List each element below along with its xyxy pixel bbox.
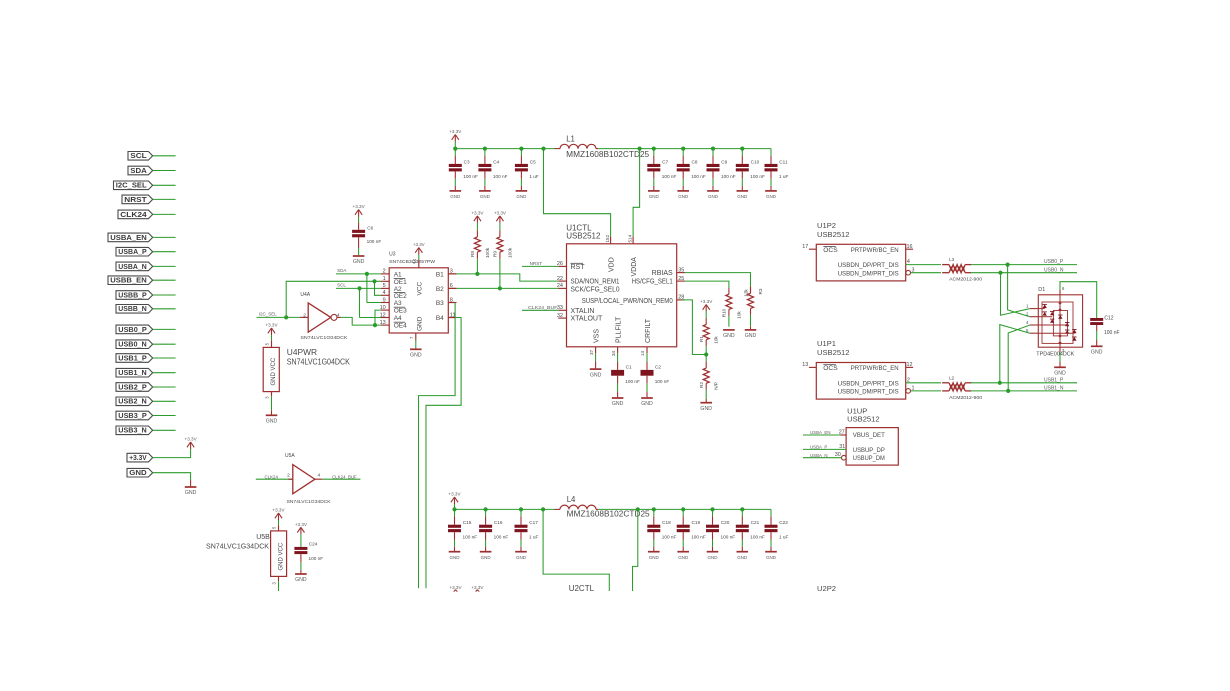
svg-text:USB3_N: USB3_N (118, 426, 146, 435)
svg-text:100 nF: 100 nF (691, 535, 706, 540)
svg-text:4: 4 (318, 473, 321, 479)
svg-text:PRTPWR/BC_EN: PRTPWR/BC_EN (851, 365, 899, 372)
svg-text:C12: C12 (1104, 316, 1113, 322)
svg-text:SCL: SCL (337, 283, 346, 288)
svg-text:2: 2 (383, 269, 386, 275)
svg-text:CLK24: CLK24 (120, 210, 147, 219)
svg-text:1 uF: 1 uF (529, 174, 539, 179)
svg-text:C24: C24 (309, 542, 318, 547)
svg-text:C3: C3 (464, 159, 470, 164)
svg-text:SCK/CFG_SEL0: SCK/CFG_SEL0 (571, 287, 620, 294)
svg-text:GND: GND (1091, 350, 1103, 356)
svg-text:GND: GND (708, 555, 719, 560)
svg-text:GND: GND (516, 555, 527, 560)
svg-text:C16: C16 (494, 520, 503, 525)
svg-text:USB0_N: USB0_N (118, 340, 146, 349)
svg-text:USB1_N: USB1_N (118, 368, 146, 377)
svg-text:CLK24_BUF: CLK24_BUF (528, 305, 558, 310)
svg-text:2: 2 (303, 312, 306, 318)
svg-text:GND: GND (723, 333, 735, 339)
svg-text:VBUS_DET: VBUS_DET (853, 432, 885, 439)
svg-text:25: 25 (678, 276, 684, 282)
svg-text:A3: A3 (394, 300, 402, 307)
svg-text:U3: U3 (389, 252, 396, 258)
svg-text:RBIAS: RBIAS (652, 270, 673, 277)
svg-text:GND: GND (516, 194, 527, 199)
svg-text:+3.3V: +3.3V (185, 437, 198, 442)
svg-text:SN74LVC1G34DCK: SN74LVC1G34DCK (287, 499, 331, 504)
svg-text:5: 5 (383, 283, 386, 289)
svg-text:100 nF: 100 nF (494, 535, 509, 540)
svg-text:C2: C2 (655, 365, 661, 370)
svg-text:5: 5 (265, 342, 270, 345)
svg-text:GND: GND (590, 372, 602, 378)
svg-text:+3.3V: +3.3V (353, 204, 366, 209)
svg-text:C11: C11 (779, 159, 788, 164)
svg-text:1: 1 (1026, 304, 1029, 309)
svg-text:USBB_EN: USBB_EN (110, 276, 146, 285)
svg-text:+3.3V: +3.3V (700, 299, 713, 304)
svg-text:U4A: U4A (300, 292, 310, 298)
svg-text:4: 4 (337, 312, 340, 318)
svg-text:OE4: OE4 (394, 323, 407, 330)
svg-text:OCS: OCS (823, 247, 838, 254)
svg-text:C21: C21 (751, 520, 760, 525)
svg-text:USB2512: USB2512 (817, 230, 850, 239)
svg-text:GND: GND (295, 577, 307, 583)
svg-text:GND: GND (678, 194, 689, 199)
svg-text:PLLFILT: PLLFILT (616, 316, 623, 343)
svg-text:10k: 10k (714, 336, 719, 344)
svg-text:GND: GND (649, 555, 660, 560)
svg-text:C22: C22 (779, 520, 788, 525)
svg-text:B2: B2 (436, 286, 444, 293)
svg-text:100k: 100k (507, 247, 512, 258)
svg-text:B1: B1 (436, 272, 444, 279)
svg-text:USB1_P: USB1_P (1044, 377, 1064, 383)
svg-text:OE2: OE2 (394, 293, 407, 300)
svg-text:NRST: NRST (124, 195, 147, 204)
svg-text:+3.3V: +3.3V (471, 211, 484, 216)
svg-text:9: 9 (383, 297, 386, 303)
svg-text:VDDA: VDDA (631, 257, 638, 277)
svg-text:USBA_EN: USBA_EN (810, 430, 831, 435)
svg-text:NRST: NRST (530, 261, 543, 266)
svg-text:GND: GND (708, 194, 719, 199)
svg-text:USBUP_DM: USBUP_DM (853, 455, 885, 462)
svg-text:U5B: U5B (256, 534, 270, 541)
svg-text:USB2_N: USB2_N (118, 397, 146, 406)
svg-text:100 nF: 100 nF (721, 174, 736, 179)
svg-text:C10: C10 (751, 159, 760, 164)
svg-text:32: 32 (557, 313, 563, 319)
svg-text:10k: 10k (736, 311, 741, 319)
svg-text:13: 13 (802, 362, 808, 368)
svg-text:GND: GND (410, 353, 422, 359)
svg-text:+3.3V: +3.3V (413, 242, 425, 247)
svg-text:+3.3V: +3.3V (471, 585, 484, 590)
svg-text:GND: GND (481, 555, 492, 560)
svg-text:USB0_P: USB0_P (118, 325, 147, 334)
svg-text:100 nF: 100 nF (493, 174, 508, 179)
svg-text:100 nF: 100 nF (721, 535, 736, 540)
svg-text:ACM2012-900: ACM2012-900 (949, 277, 983, 282)
svg-text:C6: C6 (367, 225, 373, 230)
svg-text:U4PWR: U4PWR (287, 347, 317, 357)
svg-text:100 nF: 100 nF (691, 174, 706, 179)
svg-text:TPD4E004DCK: TPD4E004DCK (1036, 352, 1075, 358)
svg-text:L4: L4 (567, 495, 576, 504)
svg-text:C18: C18 (662, 520, 671, 525)
svg-text:HS/CFG_SEL1: HS/CFG_SEL1 (632, 279, 673, 286)
svg-text:R9: R9 (493, 251, 498, 257)
svg-text:USB1_P: USB1_P (118, 353, 147, 362)
svg-text:GND: GND (353, 259, 365, 265)
svg-text:16: 16 (907, 244, 913, 250)
svg-text:C20: C20 (721, 520, 730, 525)
svg-text:ACM2012-900: ACM2012-900 (949, 395, 983, 400)
svg-text:R8: R8 (470, 251, 475, 257)
svg-text:B3: B3 (436, 300, 444, 307)
svg-text:5: 5 (272, 526, 277, 529)
svg-text:USBUP_DP: USBUP_DP (853, 447, 886, 454)
svg-text:1: 1 (383, 276, 386, 282)
svg-text:7: 7 (409, 336, 414, 339)
svg-text:U1P2: U1P2 (817, 221, 836, 230)
svg-text:R3: R3 (758, 288, 763, 294)
svg-text:17: 17 (802, 244, 808, 250)
svg-text:R10: R10 (722, 308, 727, 317)
svg-text:+3.3V: +3.3V (272, 508, 285, 513)
svg-text:C19: C19 (692, 520, 701, 525)
svg-text:GND: GND (766, 194, 777, 199)
svg-text:GND: GND (737, 555, 748, 560)
svg-text:RST: RST (571, 264, 586, 271)
svg-text:VDD: VDD (609, 257, 616, 272)
svg-text:L1: L1 (566, 134, 575, 143)
svg-text:SCL: SCL (130, 151, 147, 160)
svg-text:100 nF: 100 nF (662, 535, 677, 540)
svg-text:SUSP/LOCAL_PWR/NON_REM0: SUSP/LOCAL_PWR/NON_REM0 (582, 298, 673, 305)
svg-text:USB2512: USB2512 (817, 348, 850, 357)
svg-text:OE1: OE1 (394, 279, 407, 286)
svg-text:SN74LVC1G04DCK: SN74LVC1G04DCK (300, 335, 348, 340)
svg-text:L2: L2 (949, 375, 955, 380)
svg-text:USB0_N: USB0_N (1044, 267, 1064, 273)
svg-text:1 uF: 1 uF (529, 535, 539, 540)
svg-text:3: 3 (272, 582, 277, 585)
svg-text:CRFILT: CRFILT (645, 318, 652, 343)
svg-text:USB2512: USB2512 (566, 232, 601, 241)
svg-text:100 nF: 100 nF (367, 239, 382, 244)
svg-text:1 uF: 1 uF (779, 535, 789, 540)
svg-text:37: 37 (589, 349, 594, 355)
svg-text:USB2_P: USB2_P (118, 382, 147, 391)
svg-text:USBA_EN: USBA_EN (110, 233, 146, 242)
svg-text:14: 14 (412, 258, 417, 263)
svg-text:3: 3 (265, 396, 270, 399)
svg-text:+3.3V: +3.3V (494, 211, 507, 216)
svg-text:31: 31 (839, 444, 845, 450)
svg-text:I2C_SEL: I2C_SEL (116, 181, 147, 190)
svg-text:A1: A1 (394, 272, 402, 279)
svg-text:SN74LVC1G04DCK: SN74LVC1G04DCK (287, 357, 350, 367)
svg-text:GND: GND (480, 194, 491, 199)
svg-text:3: 3 (450, 269, 453, 275)
svg-text:GND: GND (678, 555, 689, 560)
svg-text:SDA: SDA (337, 268, 346, 273)
svg-text:GND: GND (641, 401, 653, 407)
svg-text:GND VCC: GND VCC (271, 357, 277, 385)
svg-text:35: 35 (678, 267, 684, 273)
svg-text:R2: R2 (699, 382, 704, 388)
svg-text:C5: C5 (530, 159, 536, 164)
svg-text:R1: R1 (699, 336, 704, 342)
svg-text:GND: GND (129, 468, 146, 477)
svg-text:XTALIN: XTALIN (571, 308, 595, 315)
svg-text:GND: GND (745, 333, 757, 339)
svg-text:100 nF: 100 nF (662, 174, 677, 179)
svg-text:+3.3V: +3.3V (265, 323, 278, 328)
svg-text:12k: 12k (743, 289, 748, 297)
svg-text:GND: GND (417, 316, 424, 331)
svg-text:USB3_P: USB3_P (118, 411, 147, 420)
svg-text:100 nF: 100 nF (750, 174, 765, 179)
svg-text:+3.3V: +3.3V (295, 522, 308, 527)
svg-text:U5A: U5A (285, 453, 295, 459)
svg-text:+3.3V: +3.3V (449, 585, 462, 590)
svg-text:SN74LVC1G34DCK: SN74LVC1G34DCK (206, 544, 269, 551)
svg-text:4: 4 (383, 290, 386, 296)
svg-text:GND: GND (649, 194, 660, 199)
svg-text:GND: GND (737, 194, 748, 199)
svg-text:100 nF: 100 nF (463, 535, 478, 540)
svg-text:+3.3V: +3.3V (129, 453, 147, 462)
svg-text:USBB_P: USBB_P (118, 290, 147, 299)
svg-text:USBA_P: USBA_P (810, 445, 827, 450)
svg-text:A4: A4 (394, 315, 402, 322)
svg-text:152: 152 (605, 234, 610, 242)
svg-text:100 nF: 100 nF (750, 535, 765, 540)
svg-text:CLK24_BUF: CLK24_BUF (332, 474, 357, 479)
svg-text:C9: C9 (721, 159, 727, 164)
svg-text:1 uF: 1 uF (779, 174, 789, 179)
svg-text:N/P: N/P (714, 382, 719, 390)
svg-text:C4: C4 (493, 159, 499, 164)
svg-text:I2C_SEL: I2C_SEL (259, 312, 278, 317)
svg-text:USBDN_DP/PRT_DIS: USBDN_DP/PRT_DIS (838, 380, 900, 387)
svg-text:C8: C8 (692, 159, 698, 164)
svg-text:B4: B4 (436, 315, 444, 322)
svg-text:VCC: VCC (417, 281, 424, 295)
svg-text:+3.3V: +3.3V (448, 492, 461, 497)
svg-text:100 nF: 100 nF (655, 379, 670, 384)
svg-text:L3: L3 (949, 257, 955, 262)
svg-text:USBDN_DP/PRT_DIS: USBDN_DP/PRT_DIS (838, 262, 900, 269)
svg-text:USBB_N: USBB_N (118, 304, 146, 313)
svg-text:14: 14 (640, 350, 645, 356)
svg-text:GND: GND (1054, 371, 1066, 377)
svg-text:100 nF: 100 nF (625, 379, 640, 384)
svg-text:GND: GND (612, 401, 624, 407)
svg-text:C15: C15 (463, 520, 472, 525)
svg-text:USBDN_DM/PRT_DIS: USBDN_DM/PRT_DIS (838, 389, 900, 396)
svg-text:USB0_P: USB0_P (1044, 259, 1064, 265)
svg-text:6: 6 (450, 283, 453, 289)
svg-text:D1: D1 (1038, 287, 1045, 293)
svg-text:USBA_N: USBA_N (118, 262, 146, 271)
svg-text:SDA: SDA (130, 166, 147, 175)
svg-text:PRTPWR/BC_EN: PRTPWR/BC_EN (851, 247, 899, 254)
svg-text:GND: GND (766, 555, 777, 560)
svg-text:GND: GND (266, 419, 278, 425)
svg-text:34: 34 (611, 350, 616, 356)
svg-text:USBDN_DM/PRT_DIS: USBDN_DM/PRT_DIS (838, 270, 900, 277)
svg-text:GND: GND (185, 490, 197, 496)
svg-text:100 nF: 100 nF (309, 556, 324, 561)
svg-text:6: 6 (1062, 286, 1065, 291)
svg-text:100 nF: 100 nF (1104, 330, 1120, 336)
svg-text:30: 30 (835, 452, 841, 458)
svg-text:CLK24: CLK24 (265, 474, 279, 479)
svg-text:4: 4 (1026, 320, 1029, 325)
svg-text:USBA_N: USBA_N (810, 453, 828, 458)
svg-text:GND: GND (450, 555, 461, 560)
svg-text:GND: GND (450, 194, 461, 199)
svg-text:U1P1: U1P1 (817, 339, 836, 348)
svg-text:12: 12 (907, 362, 913, 368)
svg-text:C1: C1 (626, 365, 632, 370)
svg-text:USB2512: USB2512 (847, 414, 880, 423)
svg-text:514: 514 (628, 234, 633, 242)
svg-text:C17: C17 (529, 520, 538, 525)
svg-text:100k: 100k (485, 247, 490, 258)
svg-text:USB1_N: USB1_N (1044, 386, 1064, 392)
svg-text:GND VCC: GND VCC (278, 542, 284, 570)
svg-text:USBA_P: USBA_P (118, 247, 147, 256)
svg-text:100 nF: 100 nF (463, 174, 478, 179)
svg-text:SDA/NON_REM1: SDA/NON_REM1 (571, 279, 620, 286)
svg-text:C7: C7 (662, 159, 668, 164)
svg-text:2: 2 (287, 473, 290, 479)
svg-text:OCS: OCS (823, 365, 838, 372)
svg-text:MMZ1608B102CTD25: MMZ1608B102CTD25 (566, 150, 650, 159)
svg-text:+3.3V: +3.3V (449, 129, 462, 134)
svg-text:OE3: OE3 (394, 308, 407, 315)
svg-text:XTALOUT: XTALOUT (571, 316, 603, 323)
svg-text:GND: GND (700, 406, 712, 412)
svg-text:VSS: VSS (594, 329, 601, 343)
